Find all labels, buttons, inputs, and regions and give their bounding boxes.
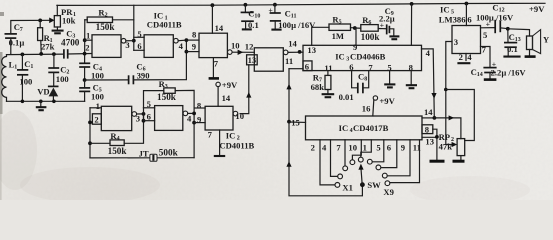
svg-text:5: 5	[147, 99, 151, 109]
rotary switch SW pole	[358, 164, 364, 188]
pin 1 label IC2	[96, 101, 100, 111]
junction: C12/C13/speaker	[506, 27, 510, 31]
svg-text:14: 14	[424, 107, 433, 117]
switch contact 9	[385, 181, 390, 186]
junction: clock node	[433, 116, 437, 120]
switch contact 2	[338, 174, 343, 179]
svg-text:RP: RP	[439, 132, 450, 142]
svg-text:10: 10	[231, 40, 240, 50]
junction: rail/C10	[244, 3, 248, 7]
pin 5 label	[137, 29, 141, 39]
svg-text:IC: IC	[339, 123, 349, 133]
svg-text:X1: X1	[342, 182, 353, 192]
bottom-left ground rail	[7, 100, 85, 102]
pin 3 label IC5	[454, 37, 458, 47]
svg-text:Y: Y	[543, 34, 550, 44]
svg-text:14: 14	[222, 93, 231, 103]
svg-text:10k: 10k	[62, 15, 76, 25]
svg-text:150k: 150k	[96, 22, 116, 32]
svg-text:15: 15	[291, 117, 300, 127]
svg-text:1: 1	[30, 64, 33, 70]
wire: pin6 to contact7	[381, 140, 397, 168]
pin 12 label	[245, 41, 254, 51]
junction: R5/R6/pin9	[353, 26, 357, 30]
svg-text:8: 8	[425, 124, 430, 134]
wire: gate3 out to gate4 inputs	[232, 51, 254, 53]
junction: VD bottom rail	[52, 100, 56, 104]
pin 15 label IC4	[291, 117, 300, 127]
junction: C2 top	[52, 52, 56, 56]
svg-text:10: 10	[254, 13, 260, 19]
svg-text:150k: 150k	[108, 146, 128, 156]
svg-text:10: 10	[348, 142, 357, 152]
pin 6 label	[137, 41, 142, 51]
ground under IC5 pins 2,4	[457, 62, 470, 64]
svg-text:8: 8	[364, 77, 367, 83]
pin 7 label IC3 bottom	[368, 62, 373, 72]
pin 8 callout box IC4	[422, 124, 433, 134]
svg-text:1: 1	[363, 142, 367, 152]
svg-text:CD4011B: CD4011B	[219, 141, 254, 151]
ground bar under C10	[242, 28, 252, 30]
resistor R6	[355, 15, 387, 42]
ground under IC2	[214, 155, 225, 157]
junction: gate1 out node	[132, 39, 136, 43]
pin 4 label IC3 right	[426, 48, 431, 58]
wire: gate4 out to IC3 pin14	[288, 51, 303, 53]
svg-text:4: 4	[187, 113, 192, 123]
pin 14 label IC4	[424, 107, 433, 117]
svg-text:11: 11	[285, 56, 293, 66]
svg-text:8: 8	[192, 29, 197, 39]
ground under IC3 pin5	[384, 71, 395, 88]
svg-text:0.1µ: 0.1µ	[9, 38, 25, 48]
arrowhead right on RP2 wire	[449, 115, 455, 120]
pin 8 label IC2	[197, 101, 202, 111]
svg-text:100: 100	[91, 71, 104, 81]
pin 7 label IC5	[482, 45, 487, 55]
pin 2 and 4 labels IC5	[459, 52, 473, 62]
junction: pin1 stub	[83, 38, 87, 42]
svg-text:1M: 1M	[332, 31, 344, 41]
svg-text:7: 7	[336, 142, 341, 152]
wire: pin5 to contact6	[372, 140, 384, 162]
svg-text:3: 3	[454, 37, 458, 47]
svg-text:7: 7	[368, 62, 373, 72]
svg-text:27k: 27k	[41, 42, 55, 52]
arrowhead up on line B upper	[286, 84, 291, 90]
potentiometer RP2	[439, 132, 465, 156]
wire: IC1 pin7 ground stem	[212, 58, 214, 78]
svg-text:1: 1	[14, 65, 17, 71]
capacitor C4	[79, 62, 104, 81]
SW label	[367, 180, 381, 190]
svg-text:500k: 500k	[159, 148, 179, 158]
arrowhead down on pin4 wire	[431, 93, 436, 99]
IC1 gate C (pins 8,9,10)	[199, 33, 240, 57]
junction: pin2 node	[88, 121, 92, 125]
arrowhead into RP2 wiper	[452, 142, 458, 147]
pin 8 label IC3 bottom	[409, 62, 414, 72]
svg-text:16: 16	[362, 103, 371, 113]
IC1 gate B (pins 5,6,4)	[144, 35, 186, 58]
pin 13 label IC3	[307, 45, 316, 55]
switch contact 7	[376, 165, 381, 170]
capacitor C6	[129, 61, 150, 84]
IC2 gate A (pins 1,2,3)	[101, 106, 143, 130]
pin 14 label IC1	[215, 23, 224, 33]
potentiometer PR1	[54, 5, 76, 29]
wire: C6 to gate2 output node	[133, 40, 186, 80]
junction: b3 pin9 node	[192, 121, 196, 125]
pin 13 callout box	[247, 55, 258, 65]
capacitor C11 electrolytic	[268, 5, 316, 30]
svg-text:100: 100	[19, 77, 32, 87]
capacitor C7	[5, 22, 25, 55]
resistor R2	[85, 8, 134, 32]
svg-text:9: 9	[353, 42, 357, 52]
capacitor C10	[241, 5, 261, 30]
wire: loop to RP2 top right	[446, 90, 475, 141]
svg-text:3: 3	[136, 113, 140, 123]
junction dot at IC3 pin14	[298, 50, 302, 54]
speaker Y	[508, 29, 550, 55]
junction: wire1/R1	[38, 19, 42, 23]
pin 16 label IC4	[362, 103, 371, 113]
junction: R1 bottom	[39, 52, 43, 56]
wire: pin1 stub	[85, 39, 92, 41]
wire: input node wire1	[11, 20, 51, 32]
junction: pin9 node	[185, 50, 189, 54]
svg-text:2.2µ /16V: 2.2µ /16V	[491, 67, 527, 77]
svg-text:9: 9	[197, 114, 201, 124]
wire: IC3 pin13 up to R5	[312, 27, 329, 45]
pin 2 callout box IC2	[92, 114, 101, 125]
capacitor C14 electrolytic	[471, 47, 527, 79]
svg-text:4: 4	[322, 142, 327, 152]
switch contact 4	[350, 160, 355, 165]
svg-text:8: 8	[197, 101, 202, 111]
svg-text:5: 5	[339, 19, 342, 25]
left page-edge smudge	[0, 12, 4, 200]
svg-text:4700: 4700	[61, 37, 80, 47]
svg-text:+9V: +9V	[222, 80, 238, 90]
junction: C1 bottom rail	[21, 100, 25, 104]
svg-text:390: 390	[137, 70, 150, 80]
wire: pin6 stub	[134, 49, 144, 51]
svg-text:3: 3	[125, 40, 129, 50]
svg-text:7: 7	[208, 130, 213, 140]
ceramic resonator JT on feedback rail	[90, 148, 194, 162]
resistor R3	[144, 79, 195, 158]
wire: pin13 to ground node	[422, 136, 437, 138]
svg-text:5: 5	[376, 142, 380, 152]
svg-text:100: 100	[56, 74, 69, 84]
pin 11 label IC3	[324, 63, 332, 73]
svg-text:3: 3	[165, 84, 168, 90]
wire: RP2 wiper from IC5 pin3	[446, 42, 453, 145]
pin 9 label	[192, 41, 196, 51]
svg-text:4: 4	[467, 52, 472, 62]
IC1 gate A (pins 1,2,3)	[92, 35, 134, 58]
junction: b2 out node	[192, 112, 196, 116]
svg-text:150k: 150k	[157, 92, 177, 102]
switch contact X1	[335, 183, 340, 188]
capacitor C9 electrolytic	[379, 6, 395, 36]
wire: pins1/2 node vertical	[90, 108, 101, 158]
junction: pin6 stub node	[142, 119, 146, 123]
line B: pin6/pin15/SW return	[289, 69, 362, 196]
wire: b3 pin9 stub	[194, 122, 205, 124]
svg-text:14: 14	[477, 72, 483, 78]
capacitor C2	[48, 54, 69, 86]
ground under C9	[389, 36, 399, 39]
wire: pin15 stub	[289, 121, 306, 123]
junction: rail/IC3 pin16	[410, 2, 414, 6]
IC3 CD4046B box	[303, 45, 422, 70]
resistor R1	[38, 20, 55, 53]
wire: IC5 pin6 to rail	[465, 4, 467, 26]
X1 label	[342, 182, 353, 192]
svg-text:10: 10	[235, 111, 244, 121]
junction: gate2 out / pin8	[185, 38, 189, 42]
svg-text:5: 5	[483, 30, 487, 40]
+9V label top right	[529, 4, 545, 14]
+9V terminal for IC2 pin14	[216, 80, 238, 106]
IC2 gate C (pins 8,9,10)	[205, 106, 244, 130]
IC2 label	[219, 131, 254, 151]
resistor R7	[311, 71, 331, 94]
IC2 gate B (pins 5,6,4)	[155, 106, 195, 131]
wire: pin2 to X1 contact	[320, 140, 335, 185]
wire: pin9 down to IC3	[355, 28, 357, 45]
svg-text:6: 6	[137, 41, 142, 51]
wire: clock node to RP2 top	[434, 118, 461, 139]
ground under R7	[322, 94, 335, 97]
svg-text:6: 6	[147, 112, 152, 122]
arrowhead up on line B lower	[286, 161, 291, 167]
svg-text:100µ /16V: 100µ /16V	[278, 20, 316, 30]
vertical node x84.6 (IC1 pins1+2 / R2 left / C3 / C4)	[84, 20, 86, 64]
pin 13 label IC4	[425, 137, 434, 147]
wire: IC3 pin4 down to clock node	[422, 49, 435, 118]
wire: rail to IC3 pin16	[410, 4, 412, 45]
pin 11 label	[285, 56, 293, 66]
pin 5 label IC3 bottom	[387, 62, 391, 72]
svg-text:13: 13	[307, 45, 316, 55]
wire: pin5 stub	[134, 36, 144, 38]
junction: pin8/13 gnd	[435, 135, 439, 139]
svg-text:4: 4	[179, 41, 184, 51]
switch contact 3	[343, 166, 348, 171]
ground under IC4 right	[430, 160, 445, 163]
svg-text:11: 11	[291, 14, 297, 20]
capacitor C3 (series in signal wire)	[61, 29, 80, 59]
svg-text:JT: JT	[139, 148, 149, 158]
arrowhead up on line A	[246, 92, 251, 98]
wire: pin7 to contact3	[344, 140, 346, 166]
wire: IC4 pin14 stub	[422, 117, 435, 119]
svg-text:7: 7	[214, 58, 219, 68]
switch contact 8	[382, 173, 387, 178]
pin 6 label IC5	[467, 15, 472, 25]
svg-text:CD4011B: CD4011B	[147, 20, 182, 30]
svg-text:LM386: LM386	[439, 15, 466, 25]
capacitor C12 electrolytic	[476, 2, 514, 33]
svg-text:12: 12	[245, 41, 254, 51]
pin 2 label IC1 (callout)	[85, 42, 89, 52]
junction: R4 left	[88, 141, 92, 145]
svg-text:5: 5	[137, 29, 141, 39]
svg-text:IC: IC	[226, 131, 236, 141]
svg-text:6: 6	[368, 20, 371, 26]
svg-text:+9V: +9V	[529, 4, 545, 14]
pin 6 callout IC3 bottom-left	[303, 61, 312, 72]
svg-text:+9V: +9V	[379, 96, 395, 106]
wire: rail stub to gate1 output node	[133, 5, 135, 50]
ground under IC3 pin8	[406, 71, 417, 89]
svg-text:13: 13	[515, 37, 521, 43]
arrowhead into PR1 wiper	[49, 18, 54, 24]
switch contact 5	[358, 157, 363, 162]
svg-text:1: 1	[86, 31, 90, 41]
svg-text:6: 6	[387, 142, 392, 152]
junction: line B / pin15	[287, 120, 291, 124]
junction: C4/C5/C6 node	[83, 78, 87, 82]
svg-text:100k: 100k	[361, 32, 381, 42]
wire: pin9 stub	[186, 51, 199, 53]
svg-text:2: 2	[94, 114, 98, 124]
junction: gate b1 out node	[142, 112, 146, 116]
svg-text:100µ /16V: 100µ /16V	[476, 13, 514, 23]
wire: pin8 stub	[186, 39, 199, 41]
resistor R5	[329, 14, 355, 40]
svg-text:14: 14	[288, 38, 297, 48]
svg-text:13: 13	[425, 137, 434, 147]
svg-text:9: 9	[192, 41, 196, 51]
wire: IC3 pin6 to line B	[289, 68, 303, 70]
wire: pin1 to contact5	[361, 140, 372, 157]
wire: pin9 to contact8	[387, 140, 410, 176]
ground under IC1	[209, 77, 219, 80]
svg-text:VD: VD	[37, 86, 49, 96]
+9V top rail	[57, 3, 545, 5]
wire: C4 node to C6	[85, 79, 129, 81]
pin 7 label IC1	[214, 58, 219, 68]
svg-text:6: 6	[305, 61, 310, 71]
pin 8 label	[192, 29, 197, 39]
junction: rail/IC5 pin6	[465, 2, 469, 6]
junction: pin3 riser / loop	[444, 88, 448, 92]
svg-text:IC: IC	[440, 5, 450, 15]
wire: pin8 to ground node	[433, 129, 437, 159]
IC1 label	[147, 11, 182, 30]
svg-text:CD4046B: CD4046B	[350, 51, 386, 61]
junction: rail/C11	[273, 3, 277, 7]
svg-text:2: 2	[105, 13, 108, 19]
junction: C1 top	[21, 53, 25, 57]
svg-text:2: 2	[311, 142, 315, 152]
wire: pin11 to contact9	[390, 140, 420, 183]
resistor R4	[90, 114, 144, 156]
svg-text:9: 9	[401, 142, 405, 152]
svg-text:2: 2	[459, 52, 463, 62]
ground bar under C11	[271, 29, 281, 31]
capacitor C1	[17, 54, 33, 101]
wire: IC1 pin14 to rail	[211, 5, 213, 33]
X9 label	[383, 187, 394, 197]
switch contact 6	[367, 159, 372, 164]
inductor L1	[2, 55, 18, 102]
ground under C13	[503, 56, 520, 58]
svg-text:IC: IC	[335, 51, 345, 61]
arrowhead on wire to gate4	[238, 50, 244, 55]
svg-text:1: 1	[96, 101, 100, 111]
junction: C3/pin2 node	[83, 52, 87, 56]
svg-text:6: 6	[467, 15, 472, 25]
wire: gate4 pin13 down to IC2 output (line A)	[240, 65, 249, 114]
wire: pin10 to contact4	[352, 140, 361, 160]
wire: IC2 pin7 ground stem	[219, 130, 221, 155]
svg-text:7: 7	[20, 27, 23, 33]
+9V terminal for IC4 pin16	[373, 96, 396, 116]
wire: b2 pin5 stub	[144, 108, 155, 121]
svg-text:SW: SW	[367, 180, 381, 190]
diode VD	[37, 86, 58, 101]
svg-text:0.01: 0.01	[339, 92, 354, 102]
pin 7 label IC2	[208, 130, 213, 140]
signal wire y54	[7, 54, 92, 55]
IC1 gate D (pins 12,13,11)	[254, 48, 288, 71]
ground under PR1	[52, 31, 64, 34]
pin 5 label IC2	[147, 99, 151, 109]
pin 1 label IC1	[86, 31, 90, 41]
pin 9 label IC2	[197, 114, 201, 124]
ground under C14	[484, 78, 497, 81]
IC4 output pin row labels	[311, 142, 421, 152]
capacitor C5	[79, 80, 104, 101]
svg-text:2.2µ: 2.2µ	[379, 14, 395, 24]
IC4 CD4017B box	[306, 116, 423, 140]
svg-text:68k: 68k	[311, 82, 325, 92]
capacitor C8	[339, 71, 369, 102]
ground under speaker	[525, 55, 536, 58]
pin 6 label IC2	[147, 112, 152, 122]
pin 14 label IC2	[222, 93, 231, 103]
ground under RP2	[453, 156, 465, 162]
wire: pin4 to contact2	[331, 140, 338, 177]
capacitor C13	[504, 29, 521, 56]
pin 6 label IC3 bottom	[349, 62, 354, 72]
ground symbol bottom-left	[36, 101, 47, 110]
junction: rail/IC1 pin14	[211, 3, 215, 7]
pin 5 label IC5	[483, 30, 487, 40]
svg-text:0.1: 0.1	[507, 44, 518, 54]
svg-text:X9: X9	[383, 187, 394, 197]
svg-text:CD4017B: CD4017B	[353, 123, 389, 133]
svg-text:2: 2	[85, 42, 89, 52]
junction: gnd stem rail	[39, 100, 43, 104]
svg-text:14: 14	[215, 23, 224, 33]
pin 9 label IC3	[353, 42, 357, 52]
pin 14 label IC3	[288, 38, 297, 48]
IC5 LM386 box	[439, 5, 481, 54]
svg-text:4: 4	[117, 136, 120, 142]
wire: b3 pin8 stub	[194, 107, 205, 109]
